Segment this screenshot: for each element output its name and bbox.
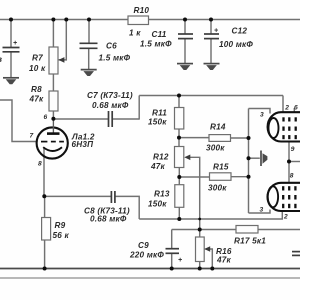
wire R11 bottom lead xyxy=(178,129,180,147)
wire grid bus y96 xyxy=(139,95,283,97)
svg-text:+: + xyxy=(13,40,17,47)
R16 wiper arrow xyxy=(204,246,210,252)
svg-text:C11: C11 xyxy=(152,30,167,39)
svg-text:150к: 150к xyxy=(148,200,167,209)
svg-text:R14: R14 xyxy=(210,123,226,132)
svg-text:300к: 300к xyxy=(208,184,227,193)
wire C7 riser up xyxy=(138,96,140,120)
wire output from R17 xyxy=(258,229,300,231)
wire cathode to C8 xyxy=(44,195,111,197)
svg-text:R9: R9 xyxy=(55,221,66,230)
wire C12 top lead xyxy=(210,20,212,35)
wire R7 to R8 xyxy=(52,74,54,91)
resistor R9 xyxy=(42,218,51,241)
node dot heater tap xyxy=(287,160,291,164)
svg-text:7: 7 xyxy=(30,133,34,140)
R7 wiper arrow xyxy=(58,57,64,63)
node dot C9 ground xyxy=(170,267,174,271)
node dot R15 right xyxy=(247,175,251,179)
wire C8 right to riser xyxy=(115,196,139,219)
wire C6 bottom lead xyxy=(88,49,90,70)
wire R12 wiper run xyxy=(186,157,200,237)
wire R7 top lead xyxy=(52,20,54,48)
tube U1 anode lead xyxy=(52,119,54,133)
svg-text:0.68 мкФ: 0.68 мкФ xyxy=(90,215,127,224)
svg-text:47к: 47к xyxy=(216,256,232,265)
wire tube U2 pin 3 jog xyxy=(249,109,271,114)
svg-text:R12: R12 xyxy=(153,153,169,162)
node dot R14 right xyxy=(247,136,251,140)
resistor R12 (pot) xyxy=(175,147,184,168)
svg-text:1.5 мкФ: 1.5 мкФ xyxy=(99,54,131,63)
capacitor C5 plates xyxy=(3,47,20,49)
wire C9 riser xyxy=(171,230,173,249)
tube U3 cathode ellipse xyxy=(268,186,278,207)
svg-text:C12: C12 xyxy=(232,27,248,36)
svg-text:100 мкФ: 100 мкФ xyxy=(219,40,253,49)
output capacitor fragment at right edge xyxy=(292,251,300,253)
node dot R13 bottom xyxy=(177,217,181,221)
wire R15 left xyxy=(179,176,209,178)
capacitor C7 plates xyxy=(108,111,110,127)
node dot rail R7 xyxy=(51,18,55,22)
node dot wiper crossing y219 xyxy=(198,218,201,221)
svg-text:C6: C6 xyxy=(106,42,117,51)
wire C5 bottom lead xyxy=(10,52,12,78)
svg-text:C7 (К73-11): C7 (К73-11) xyxy=(87,91,133,100)
resistor R7 (trim pot) xyxy=(49,47,58,74)
wire R12 to R13 xyxy=(178,168,180,185)
svg-text:150к: 150к xyxy=(148,118,167,127)
sideways ground at mid node xyxy=(260,151,262,167)
node dot cathode U1 xyxy=(42,194,46,198)
svg-text:8: 8 xyxy=(38,161,42,168)
capacitor C6 plates xyxy=(80,42,98,44)
resistor R13 xyxy=(175,185,184,208)
wire between tubes U2 U3 xyxy=(288,141,290,184)
svg-text:R13: R13 xyxy=(154,190,170,199)
svg-text:R7: R7 xyxy=(32,54,43,63)
wire U1 cathode lead xyxy=(43,148,45,196)
node dot 6 anode U1 xyxy=(51,117,55,121)
svg-text:R17 5к1: R17 5к1 xyxy=(234,237,266,246)
node dot R9 ground xyxy=(43,267,47,271)
ground under C12 xyxy=(204,63,220,65)
wire C11 bottom lead xyxy=(184,39,186,64)
wire mid riser x248 xyxy=(248,109,250,214)
svg-text:300к: 300к xyxy=(206,144,225,153)
svg-text:47к: 47к xyxy=(29,95,45,104)
wire R15 right xyxy=(231,176,249,178)
svg-text:1 к: 1 к xyxy=(129,29,141,38)
tube U3 grid dashes xyxy=(283,186,295,208)
capacitor C9 plates xyxy=(166,248,180,250)
wire R9 bottom lead xyxy=(44,240,46,269)
wire R9 top lead xyxy=(44,196,46,217)
wire heater tap to edge xyxy=(289,161,300,163)
wire bus y219 to tube U3 pin 2 xyxy=(139,212,282,220)
svg-text:C9: C9 xyxy=(138,241,149,250)
svg-text:9: 9 xyxy=(291,146,295,153)
resistor R11 xyxy=(175,108,184,130)
node dot rail C12 xyxy=(209,18,213,22)
svg-text:56 к: 56 к xyxy=(53,231,70,240)
node dot wiper bus y229 xyxy=(198,228,202,232)
node dot rail C6 xyxy=(87,18,91,22)
svg-text:220 мкФ: 220 мкФ xyxy=(129,251,164,260)
wire input to grid of U1 xyxy=(0,100,37,142)
ground bus rail 1 xyxy=(0,268,300,270)
svg-text:R10: R10 xyxy=(134,6,150,15)
tube U2 cathode ellipse xyxy=(269,118,279,138)
capacitor C11 plates xyxy=(178,33,193,35)
ground bus rail 2 xyxy=(0,277,300,279)
wire R16 wiper run xyxy=(206,249,213,269)
tube U1 cathode arc xyxy=(43,147,62,151)
wire tube U3 pin 3 jog xyxy=(249,210,271,214)
tube U2 grid dashes xyxy=(284,117,296,139)
wire R8 to node 6 xyxy=(52,111,54,119)
capacitor C12 plates xyxy=(204,33,219,35)
resistor R17 xyxy=(236,226,258,234)
resistor R10 xyxy=(128,16,149,25)
ground under C6 xyxy=(81,69,97,71)
wire C12 bottom lead xyxy=(210,39,212,64)
resistor R15 xyxy=(210,173,232,181)
wire R14 right xyxy=(231,137,249,139)
R12 wiper arrow xyxy=(184,155,190,161)
svg-text:R8: R8 xyxy=(31,85,42,94)
svg-text:+: + xyxy=(214,28,218,35)
wire top supply rail xyxy=(0,19,300,21)
svg-text:1.5 мкФ: 1.5 мкФ xyxy=(140,40,172,49)
node dot R11 R12 xyxy=(177,136,181,140)
svg-text:0.68 мкФ: 0.68 мкФ xyxy=(92,101,129,110)
wire C7 to riser xyxy=(113,118,140,120)
node dot R16 ground xyxy=(198,267,202,271)
svg-text:10 к: 10 к xyxy=(29,64,46,73)
svg-text:47к: 47к xyxy=(150,162,166,171)
node dot rail C5 xyxy=(9,18,13,22)
svg-text:3: 3 xyxy=(260,207,264,214)
tube U1 envelope xyxy=(37,127,68,158)
node dot rail R7 wiper xyxy=(64,18,68,22)
svg-text:в: в xyxy=(0,55,2,64)
node dot R16 wiper ground xyxy=(210,267,214,271)
resistor R14 xyxy=(209,135,231,142)
wire R16 bottom lead xyxy=(199,262,201,269)
wire C5 top lead xyxy=(10,20,12,48)
wire R11 top lead xyxy=(178,96,180,108)
svg-text:6: 6 xyxy=(294,105,298,112)
wire C9 bottom lead xyxy=(171,254,173,269)
svg-text:R15: R15 xyxy=(213,163,229,172)
ground under C5 xyxy=(3,77,19,79)
node dot R12 R13 R15 xyxy=(177,175,181,179)
wire R13 bottom lead xyxy=(178,207,180,219)
tube U1 grid dashes xyxy=(41,141,64,143)
wire ground cap lead xyxy=(249,157,260,159)
wire tube U2 pin 2 drop xyxy=(282,96,284,114)
svg-text:R11: R11 xyxy=(152,109,167,118)
wire bus y229 left xyxy=(172,229,236,231)
tube U3 envelope xyxy=(268,183,301,211)
svg-text:2: 2 xyxy=(284,105,289,112)
wire C11 top lead xyxy=(184,20,186,35)
node dot R11 top xyxy=(177,94,181,98)
wire tube U2 pin 6 stub xyxy=(293,108,295,113)
node dot rail C11 xyxy=(183,18,187,22)
svg-text:+: + xyxy=(178,257,182,264)
svg-text:2: 2 xyxy=(283,214,288,221)
ground under C11 xyxy=(177,63,193,65)
svg-text:6Н3П: 6Н3П xyxy=(72,140,95,149)
capacitor C8 plates xyxy=(110,191,112,203)
resistor R16 (pot) xyxy=(196,237,205,262)
tube U2 envelope xyxy=(268,112,300,141)
tube U1 anode bar xyxy=(47,132,60,135)
wire C6 top lead xyxy=(88,20,90,44)
node dot ground cap xyxy=(247,156,251,160)
svg-text:3: 3 xyxy=(260,112,264,119)
svg-text:8: 8 xyxy=(290,173,294,180)
wire R14 left xyxy=(179,137,209,139)
wire node 6 to C7 xyxy=(53,118,108,120)
wire R7 wiper riser xyxy=(59,20,67,60)
resistor R8 xyxy=(49,91,58,111)
svg-text:6: 6 xyxy=(44,114,48,121)
